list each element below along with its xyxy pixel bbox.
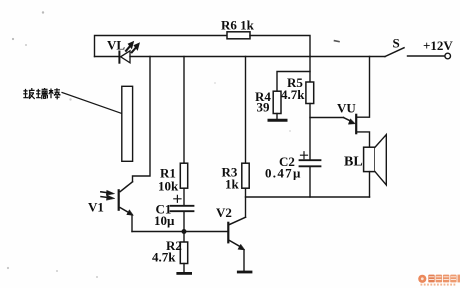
capacitor C2 plus sign [301, 152, 308, 159]
transistor VU base bar [355, 115, 357, 133]
transistor V2 collector diagonal [229, 217, 245, 224]
wire R1 drop [183, 57, 185, 164]
wire V1 collector drop [133, 57, 151, 182]
transistor V2 emitter arrowhead [238, 244, 245, 250]
svg-text:0.47μ: 0.47μ [265, 166, 302, 181]
svg-text:R6 1k: R6 1k [221, 18, 255, 33]
wire R3 bottom to V2 collector [245, 188, 247, 217]
svg-text:S: S [393, 36, 400, 51]
wire C2 to bottom rail [309, 166, 311, 197]
ground R2 [178, 272, 191, 275]
switch S blade [385, 48, 404, 57]
svg-text:10k: 10k [158, 179, 179, 194]
wire V1 emitter down [131, 215, 133, 232]
LED VL triangle [121, 51, 130, 63]
terminal +12V circle [445, 53, 451, 59]
stray scan tick [335, 40, 340, 43]
transistor V2 base bar [227, 223, 229, 243]
transistor V1 base bar [118, 190, 120, 209]
glass rod pointer line [62, 93, 122, 114]
capacitor C1 plus sign [174, 195, 181, 202]
wire base line V1 emitter to V2 base [132, 231, 227, 233]
wire R4 branch [277, 72, 310, 92]
wire top rail right [250, 36, 310, 57]
wire R2 to ground [183, 264, 185, 274]
transistor V1 emitter diagonal [120, 208, 130, 214]
LED VL cathode bar [118, 52, 120, 63]
LED VL emission arrow 1 [126, 46, 131, 51]
wire top rail left [95, 36, 228, 57]
wire V2 emitter down [243, 250, 245, 272]
transistor V1 collector diagonal [120, 182, 132, 192]
capacitor C2 plates [300, 159, 321, 161]
svg-text:V1: V1 [88, 200, 104, 215]
transistor VU emitter arrowhead [348, 119, 355, 124]
label 玻璃棒 (hand drawn) [23, 88, 60, 99]
wire VU top lead to rail [357, 57, 369, 118]
svg-text:1k: 1k [225, 177, 240, 192]
speaker BL body [364, 147, 375, 171]
ground R4 [269, 119, 286, 122]
wire R5 branch upper [309, 57, 311, 83]
glass rod [122, 86, 133, 161]
ground V2 [238, 271, 251, 274]
svg-text:V2: V2 [216, 205, 232, 220]
wire bottom rail [246, 196, 370, 198]
svg-text:VU: VU [337, 101, 356, 116]
svg-text:VL: VL [107, 38, 125, 53]
transistor V2 emitter diagonal [229, 240, 240, 246]
wire speaker to bottom rail [369, 172, 371, 197]
V1 photo arrow 2 [101, 196, 107, 199]
wire lower rail right of LED [130, 56, 385, 58]
resistor R4 [273, 91, 281, 113]
resistor R5 [306, 82, 314, 104]
wire R4 to ground [276, 114, 278, 120]
watermark logo [418, 275, 460, 286]
svg-text:4.7k: 4.7k [281, 87, 305, 102]
wire lower rail left of LED [95, 56, 119, 58]
svg-text:+12V: +12V [423, 38, 453, 53]
svg-text:4.7k: 4.7k [152, 250, 176, 265]
resistor R6 [227, 32, 250, 39]
wire VU bottom lead to speaker [357, 132, 369, 147]
wire R3 drop [245, 57, 247, 164]
V1 photo arrow 1 [101, 191, 107, 194]
resistor R2 [180, 242, 187, 264]
svg-text:BL: BL [344, 155, 363, 170]
junction node A dot [182, 229, 187, 234]
transistor V1 emitter arrowhead [127, 210, 134, 216]
resistor R1 [180, 163, 187, 188]
transistor VU emitter arrow diagonal [344, 118, 350, 121]
speaker BL horn [375, 135, 386, 185]
wire R1 to C1 [183, 188, 185, 205]
wire R5 bottom to C2 [309, 104, 311, 160]
svg-text:10μ: 10μ [154, 213, 175, 228]
resistor R3 [242, 163, 249, 188]
wire R5 junction to VU emitter [310, 117, 344, 119]
svg-text:39: 39 [257, 100, 271, 115]
capacitor C1 plates [171, 205, 194, 207]
LED VL emission arrow 2 [132, 47, 137, 52]
wire C1 to junction [183, 211, 185, 242]
wire switch to terminal [408, 55, 445, 57]
scan noise specks [7, 11, 291, 278]
